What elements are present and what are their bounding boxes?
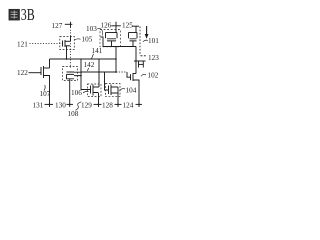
svg-text:126: 126 xyxy=(101,22,112,30)
svg-text:106: 106 xyxy=(71,89,82,97)
svg-text:123: 123 xyxy=(148,54,159,62)
svg-text:125: 125 xyxy=(122,22,133,30)
svg-text:141: 141 xyxy=(92,47,103,55)
svg-text:130: 130 xyxy=(55,101,66,109)
svg-text:105: 105 xyxy=(82,35,93,43)
svg-text:102: 102 xyxy=(148,72,159,80)
svg-text:107: 107 xyxy=(40,90,51,98)
svg-text:129: 129 xyxy=(81,101,92,109)
svg-text:121: 121 xyxy=(17,40,28,48)
svg-text:3B: 3B xyxy=(21,6,35,24)
svg-text:131: 131 xyxy=(33,101,44,109)
svg-text:128: 128 xyxy=(102,101,113,109)
svg-text:122: 122 xyxy=(17,69,28,77)
svg-text:101: 101 xyxy=(148,37,159,45)
svg-text:104: 104 xyxy=(126,87,137,95)
svg-text:103: 103 xyxy=(86,25,97,33)
svg-text:124: 124 xyxy=(123,101,134,109)
svg-text:108: 108 xyxy=(68,110,79,118)
svg-text:142: 142 xyxy=(84,61,95,69)
svg-text:127: 127 xyxy=(52,22,63,30)
